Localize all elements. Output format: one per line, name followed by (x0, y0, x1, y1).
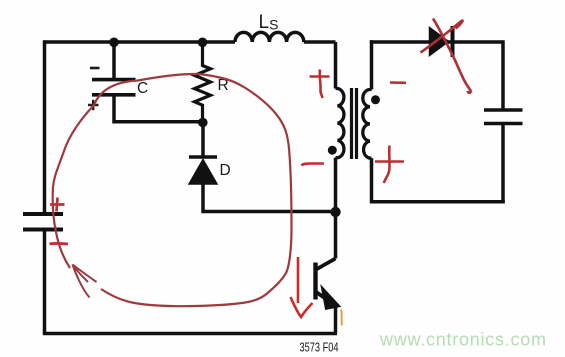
wire secondary right rail lower (501, 124, 505, 204)
annotation X cross over DOUT (421, 19, 471, 93)
wire primary bottom to node E (334, 158, 338, 212)
wire D anode down and right to node E (203, 184, 336, 212)
transistor Q1 emitter arrowhead (323, 290, 338, 309)
wire secondary right rail upper (501, 40, 505, 110)
transistor Q1 emitter diagonal (316, 292, 333, 304)
wire left rail upper (43, 40, 47, 214)
polarity minus above capacitor C (90, 67, 100, 70)
diode D body (189, 157, 217, 184)
wire R bottom to diode D (201, 123, 205, 158)
junction node B (top of R) (198, 38, 208, 48)
phasing dot secondary (371, 95, 380, 104)
svg-text:D: D (220, 162, 231, 179)
svg-text:3573 F04: 3573 F04 (300, 341, 339, 355)
wire bottom rail (43, 332, 337, 336)
inductor LS (235, 32, 304, 42)
svg-text:LS: LS (259, 12, 279, 33)
transformer T1 primary winding (336, 89, 344, 158)
annotation plus left capacitor (50, 198, 65, 212)
wire top rail right (304, 40, 336, 44)
capacitor CIN left (23, 214, 63, 230)
phasing dot primary (328, 146, 337, 155)
diode DOUT body (crossed out) (430, 26, 453, 57)
wire secondary top up (370, 40, 374, 89)
annotation arrow V head (291, 297, 313, 317)
svg-text:C: C (137, 80, 148, 97)
wire left rail lower (43, 230, 47, 334)
transistor Q1 emitter wire (334, 304, 338, 334)
wire secondary bottom rail (372, 200, 505, 204)
junction node A (top of C) (109, 38, 119, 48)
annotation plus primary top (310, 70, 330, 99)
annotation minus secondary top (390, 81, 406, 84)
transistor Q1 collector wire (334, 212, 338, 259)
transistor Q1 collector diagonal (316, 259, 336, 270)
wire top rail left (45, 40, 236, 44)
junction node C-R bottom (198, 118, 208, 128)
wire C bottom to R bottom (114, 95, 203, 122)
transistor Q1 base bar (313, 263, 317, 300)
transformer T1 secondary winding (363, 90, 372, 159)
annotation orange squiggle at emitter (341, 310, 342, 326)
wire C drop (112, 42, 116, 80)
wire secondary left rail (370, 158, 374, 203)
polarity plus below capacitor C (88, 100, 99, 110)
capacitor C plates (92, 80, 136, 95)
svg-text:www.cntronics.com: www.cntronics.com (379, 330, 547, 350)
resistor R (195, 42, 211, 123)
annotation arrow at transistor (297, 257, 300, 303)
annotation plus secondary bottom (375, 146, 404, 184)
annotation minus left capacitor (50, 242, 69, 246)
annotation loop arrowhead (73, 265, 97, 298)
transformer T1 core (352, 88, 357, 159)
junction node E (collector node) (330, 207, 340, 217)
wire secondary top rail (370, 40, 503, 44)
annotation current loop (hand-drawn) (53, 74, 292, 306)
wire primary top drop (334, 42, 338, 89)
annotation minus primary bottom (302, 164, 325, 166)
capacitor COUT plates (484, 110, 523, 124)
